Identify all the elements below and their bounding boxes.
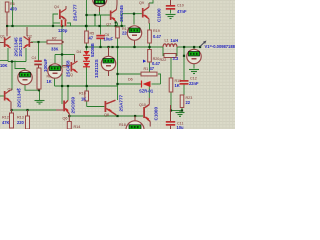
wire Q2 base to R7 y42 [31,41,47,43]
resistor R16 47 [141,66,157,76]
junction node at 182,110 [181,109,183,111]
wire Q6 base row y110 [12,109,57,111]
wire R7 right to rail A [62,41,64,43]
junction node at 12,62 [11,60,13,62]
svg-text:2SC1345: 2SC1345 [17,88,22,108]
input arrow marker blue [143,60,146,63]
wire ground row y110.5 [171,110,182,112]
wire R17 top hook [117,23,119,28]
transistor Q8 2SA777 [104,94,124,116]
wire C4 drop x40.5 [38,42,40,61]
junction node at 150,47 [148,46,150,48]
svg-text:C3: C3 [60,17,65,21]
wire R15 top pin [170,55,172,78]
svg-text:5Z05B: 5Z05B [90,43,95,57]
resistor R19 0.47 [148,29,162,43]
svg-text:Q4: Q4 [54,5,59,9]
resistor R13 220 [17,110,30,129]
transistor Q6 2SC959 [63,96,76,120]
svg-text:R1: R1 [144,67,149,71]
wire Q1 emitter down [7,48,9,62]
wire C6 top pin [100,15,102,35]
svg-text:R7: R7 [52,37,57,41]
wire Q9 emitter to R19 [149,23,151,30]
junction node at 38,42 [37,41,39,43]
junction node at 87,86 [86,85,88,87]
svg-text:33K: 33K [51,47,59,52]
wire rail A x62 vertical [61,20,63,104]
svg-text:22: 22 [186,100,191,105]
wire tail to Q3 collector x12 [11,62,13,91]
wire main rail H3 y47 left part [87,46,164,48]
junction node at 28,110 [26,109,28,111]
wire rail1 horizontal y26 [7,25,126,27]
resistor R7 33K [47,37,64,52]
junction node at 62,54 [61,53,63,55]
transistor Q7 2SC945 [106,0,124,26]
meter M7 ammeter bottom [119,116,144,139]
svg-text:47K: 47K [2,120,10,125]
junction node at 184,56 [183,55,185,57]
svg-text:L1: L1 [165,39,169,43]
junction node at 200,47 [199,46,201,48]
svg-text:Q6: Q6 [63,117,68,121]
svg-text:2SA777: 2SA777 [73,4,78,21]
wire M6 bottom pin [193,64,195,69]
ground below C10 [166,15,176,19]
capacitor C6 10uF [96,33,113,42]
svg-text:R18: R18 [119,123,126,127]
wire R16 right hook [158,74,161,84]
resistor R20 0.47 [148,50,161,67]
transistor Q4 2SA777 [54,4,78,21]
diode D4 zener [77,43,95,57]
wire M3 top feed y54.5 [54,55,56,65]
svg-text:R19: R19 [153,29,160,33]
svg-text:2SA777: 2SA777 [119,94,124,111]
wire left stub y60.5 [0,60,8,62]
wire zobel drop x184 [183,47,185,80]
junction node at 116,26 [115,25,117,27]
svg-text:1S2112S: 1S2112S [94,59,99,78]
wire Q2 emitter down [25,48,27,62]
wire M2 top feed [15,61,25,71]
junction node at 95,15 [94,14,96,16]
svg-text:R10: R10 [79,92,86,96]
wire R22 right hook [176,47,177,56]
svg-text:3.3: 3.3 [173,56,179,61]
wire R5 bottom pin [86,43,88,47]
svg-text:1K: 1K [81,97,86,102]
junction node at 62,86 [61,85,63,87]
junction node at 122,26 [121,25,123,27]
wire C6 bottom pin [100,39,102,48]
svg-text:SZR-01: SZR-01 [139,89,154,94]
resistor R8 1K [37,68,52,90]
transistor Q2 2SC1345 [18,27,33,57]
svg-text:0.47: 0.47 [153,34,162,39]
wire R17 bottom pin [117,38,119,47]
wire ground stub top right [170,9,172,14]
wire vertical x12.5 top [12,0,14,26]
resistor R22 3.3 [160,54,179,63]
wire Q10 collector rise [148,86,150,98]
svg-text:47: 47 [89,36,94,41]
capacitor C12 22nF [180,77,200,87]
wire R20 top pin [149,47,151,50]
svg-text:Q2: Q2 [27,34,32,38]
junction node at 86,47 [85,46,87,48]
wire R19 bottom pin [149,43,151,47]
wire to Q4 base [53,14,58,26]
svg-text:Q3: Q3 [8,88,13,92]
wire Q6 collector rise [67,86,69,100]
svg-text:D6: D6 [128,78,133,82]
wire diode stack bottom [86,67,88,87]
ground under M6 [189,70,199,74]
junction node at 118,74 [116,73,118,75]
svg-text:R22: R22 [160,58,167,62]
junction node at 12,110 [10,109,12,111]
resistor R10 1K [79,91,89,102]
svg-text:22nF: 22nF [189,81,199,86]
svg-text:R12: R12 [2,116,9,120]
junction node at 12,26 [11,25,13,27]
svg-text:Q8: Q8 [104,113,109,117]
wire R23 bottom [181,108,183,111]
svg-text:47nF: 47nF [177,9,187,14]
probe V1 [200,41,236,50]
junction node at 184,47 [183,46,185,48]
ground under R8 [35,101,45,104]
meter M1 ammeter top [93,0,107,12]
wire diode stack top [86,47,88,51]
junction node at 112,47 [111,46,113,48]
wire vertical x88 [86,0,88,31]
svg-text:V1=-0.00987188: V1=-0.00987188 [205,44,236,49]
svg-text:2SC959: 2SC959 [71,96,76,113]
junction node at 53,26 [52,25,54,27]
junction node at 150,74 [148,73,150,75]
capacitor C11 [166,105,184,130]
diode D6 SZR-01 [128,78,154,94]
wire M4 bottom pin [108,71,110,77]
junction node at 134,14 [133,13,135,15]
wire main rail H3 y47 right part [177,46,200,48]
junction node at 118,116 [116,115,118,117]
resistor R6 [5,2,17,25]
svg-text:Q10: Q10 [139,103,146,107]
wire H mid2 y89.6 [55,85,118,87]
wire emitter join y61.5 [8,61,26,63]
svg-text:1K: 1K [175,83,180,88]
svg-text:R6: R6 [10,2,15,6]
junction node at 7,26 [6,25,8,27]
svg-text:C10: C10 [177,4,184,8]
junction node at 135,116 [134,115,136,117]
wire Q5 base y17.3 [87,14,111,16]
junction node at 100,47 [99,46,101,48]
wire Q3 base lead [0,95,5,97]
meter M2 ammeter [17,70,33,92]
svg-text:220: 220 [17,120,25,125]
wire M2 bottom to ground row [25,85,39,91]
diode D5a 1S2112 [83,57,99,78]
junction node at 134,47 [133,46,135,48]
wire D6 right [152,83,161,85]
wire R20 bottom pin [149,62,151,74]
wire C3 right lead [67,23,71,26]
junction node at 62,26 [61,25,63,27]
transistor Q1 2SC1345 [0,27,19,57]
svg-text:120p: 120p [58,28,68,33]
wire R22 left hook [163,47,164,56]
capacitor C4 [32,56,49,72]
wire output rail y117 [69,115,143,117]
svg-text:10u: 10u [177,125,185,129]
wire R16 row y73 [118,73,142,75]
svg-text:1uH: 1uH [171,38,179,43]
svg-text:47: 47 [150,66,155,71]
wire R10 top pin green [86,86,88,91]
junction node at 86,15 [85,14,87,16]
capacitor C10 47nF [166,0,187,14]
svg-text:Q1: Q1 [0,34,5,38]
svg-text:10K: 10K [0,63,8,68]
junction node at 118,84 [116,83,118,85]
meter M4 ammeter [101,47,115,76]
junction node at 69,116 [68,115,70,117]
wire Q9 base y13 [122,13,142,15]
wire C12 to R23 [183,84,185,95]
svg-text:C12: C12 [190,77,197,81]
transistor Q9 C1000 [139,1,162,24]
junction node at 118,47 [116,46,118,48]
svg-text:2SC945: 2SC945 [119,5,124,22]
wire V x112.5 [117,47,119,100]
svg-text:D4: D4 [77,50,82,54]
wire ground stem [39,90,41,100]
junction node at 68,86 [67,85,69,87]
svg-text:R14: R14 [74,125,81,129]
svg-text:C1000: C1000 [154,107,159,121]
svg-text:C1000: C1000 [157,8,162,22]
junction node at 86,26 [85,25,87,27]
meter M3 ammeter [48,64,67,78]
diode D5b 1S2112 [83,63,90,67]
wire M4 top pin [108,47,110,57]
svg-text:2SC1345: 2SC1345 [18,37,23,57]
svg-text:1K: 1K [47,79,52,84]
wire M3 bottom drop [54,78,56,86]
wire R10 bottom pin [86,101,88,107]
capacitor C3 120p [58,17,68,34]
resistor R15 1K [169,78,181,92]
meter M5 ammeter [127,26,141,45]
wire Q8 base feed [87,106,105,108]
wire M6 top pin [193,47,195,50]
resistor R23 22 [180,95,192,108]
junction node at 108,47 [107,46,109,48]
svg-text:Q9: Q9 [139,1,144,5]
wire D6 row y83.5 [118,83,142,85]
svg-text:Q7: Q7 [106,22,111,26]
svg-text:470: 470 [10,7,18,12]
junction node at 39,90 [38,89,40,91]
resistor R14 [67,116,80,129]
wire diode row y54.5 [55,54,75,56]
junction node at 100,26 [98,25,100,27]
meter M6 ammeter [187,49,201,63]
resistor R5 47 [85,31,95,43]
svg-text:R13: R13 [17,116,24,120]
junction node at 86,26 [85,25,87,27]
inductor L1 1uH [163,38,178,47]
svg-text:10uF: 10uF [104,37,114,42]
transistor QX 2SC458 [62,55,78,78]
wire R15 bottom pin [170,92,172,111]
wire Q9 collector to C10 [149,0,153,3]
junction node at 116,22 [115,21,117,23]
resistor R17 220 [116,27,130,38]
ground bottom right [176,111,185,117]
transistor Q10 C1000 [139,98,159,127]
junction node at 171,110 [170,109,172,111]
wire M5 bottom pin [134,40,136,47]
junction node at 194,47 [193,46,195,48]
wire link w5 to rail1 [94,15,96,26]
resistor R12 47K [2,110,14,128]
svg-text:2SC458: 2SC458 [66,60,71,77]
svg-text:C4: C4 [32,56,37,60]
transistor Q3 2SC1345 [4,88,22,111]
wire C3 left lead [53,22,60,24]
junction node at 62,42 [61,41,63,43]
